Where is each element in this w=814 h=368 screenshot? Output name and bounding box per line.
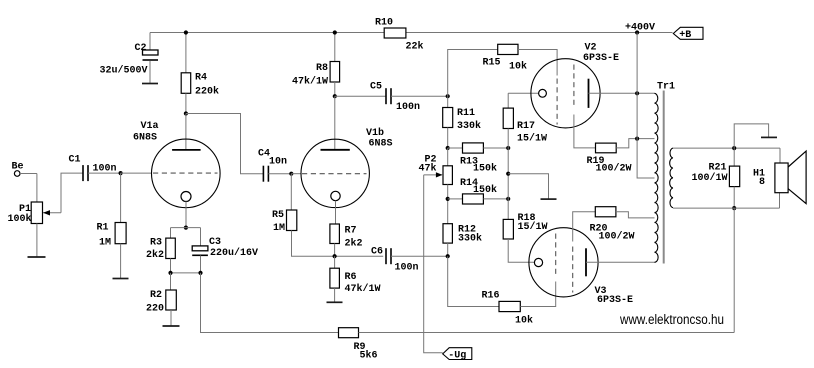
wire R3-C3 bottom rail — [171, 272, 201, 274]
transformer core — [663, 91, 665, 264]
junction R11 / R13 / P2 — [446, 146, 450, 150]
resistor R19 — [596, 143, 617, 153]
wire speaker return to bus — [733, 208, 735, 332]
capacitor C2 — [143, 50, 159, 55]
svg-text:R17: R17 — [517, 121, 535, 132]
wire R18 to V3 cathode — [508, 239, 534, 262]
resistor R7 — [330, 224, 340, 244]
svg-text:R1: R1 — [97, 223, 109, 234]
V1b grid (dashed) — [302, 173, 367, 175]
pentode V2 envelope — [531, 59, 600, 128]
junction cathode / R3 C3 rail — [184, 226, 188, 230]
capacitor C1 — [83, 165, 88, 181]
svg-text:R4: R4 — [195, 73, 207, 84]
svg-text:15/1W: 15/1W — [518, 221, 548, 233]
capacitor C3 (polarized) — [192, 246, 208, 251]
P2 wiper arrow — [424, 174, 442, 176]
ground secondary — [761, 136, 777, 138]
wire C4 to V1b grid node — [268, 173, 291, 175]
ground below R6 — [327, 301, 343, 303]
resistor R21 — [729, 166, 739, 187]
power flag +B — [673, 27, 703, 39]
svg-text:C2: C2 — [135, 43, 147, 54]
svg-text:6N8S: 6N8S — [369, 139, 393, 150]
wire P2 wiper to -Ug flag — [424, 175, 443, 353]
V1a cathode circle — [181, 192, 191, 202]
svg-text:Tr1: Tr1 — [657, 82, 675, 93]
svg-text:C6: C6 — [371, 247, 383, 258]
wire bottom bus R9 to speaker return — [359, 332, 735, 334]
junction anode line / +400V line — [635, 91, 639, 95]
svg-text:2k2: 2k2 — [146, 249, 164, 261]
ground mid (output stage) — [541, 198, 557, 200]
wire secondary top rail — [673, 147, 780, 149]
wire +400V to primary center tap — [637, 33, 654, 179]
svg-text:2k2: 2k2 — [345, 238, 363, 250]
wire V3 anode to primary bottom — [586, 261, 655, 263]
resistor R12 — [443, 224, 452, 243]
svg-text:8: 8 — [759, 177, 765, 188]
junction V1a anode node — [184, 111, 188, 115]
wire down to P1 — [36, 174, 38, 203]
wire to R13 — [448, 147, 463, 149]
svg-text:1M: 1M — [99, 238, 111, 249]
svg-text:R11: R11 — [457, 108, 475, 119]
wire node to R15 — [448, 50, 498, 97]
wire V1b cathode to R7 — [335, 201, 337, 224]
V1b anode plate — [321, 149, 350, 151]
wire R21 to bottom rail — [733, 187, 735, 209]
wire to R6 — [334, 256, 336, 268]
svg-text:R16: R16 — [482, 291, 500, 302]
junction bottom rail / feedback — [198, 271, 202, 275]
V3 control grid g1 (dashed) — [555, 234, 557, 278]
junction P2 line / R14 — [446, 197, 450, 201]
svg-text:R5: R5 — [272, 210, 284, 221]
svg-text:6N8S: 6N8S — [133, 133, 157, 144]
wire grid node to V1a grid — [121, 172, 152, 174]
capacitor C5 — [386, 88, 391, 104]
resistor R1 — [115, 223, 126, 244]
junction top rail / +400V drop — [635, 30, 639, 34]
resistor R10 — [384, 28, 406, 38]
input terminal Be — [14, 171, 20, 177]
svg-text:6P3S-E: 6P3S-E — [597, 295, 633, 306]
svg-text:+400V: +400V — [625, 23, 655, 34]
resistor R16 — [499, 301, 520, 311]
svg-text:+B: +B — [679, 30, 691, 41]
triode V1b envelope — [301, 139, 369, 207]
svg-text:V2: V2 — [585, 43, 597, 54]
wire V2 g2 to R19 — [574, 115, 596, 148]
resistor R13 — [463, 143, 484, 153]
ground below R1 — [113, 278, 129, 280]
svg-text:22k: 22k — [406, 41, 424, 53]
svg-text:-Ug: -Ug — [448, 351, 466, 362]
wire to H1 top — [779, 148, 781, 163]
svg-text:47k/1W: 47k/1W — [345, 283, 381, 295]
svg-text:C5: C5 — [370, 82, 382, 93]
speaker H1 driver box — [775, 163, 788, 193]
resistor R6 — [330, 268, 340, 288]
wire to V2 cathode — [508, 92, 538, 94]
svg-text:100k: 100k — [8, 213, 32, 225]
wire V1b anode lead — [334, 96, 336, 150]
resistor R3 — [166, 238, 176, 258]
wire C2 to ground — [149, 61, 151, 84]
capacitor C4 — [263, 166, 268, 182]
svg-text:10k: 10k — [515, 315, 533, 327]
wire R3 to bottom rail — [170, 259, 172, 273]
svg-text:330k: 330k — [457, 120, 481, 132]
wire C2 stub from top rail — [149, 33, 151, 51]
junction R13 / R17 line — [506, 146, 510, 150]
wire to ground symbol — [508, 174, 548, 199]
svg-text:R6: R6 — [345, 272, 357, 283]
wire C6 to R12 node — [391, 255, 448, 257]
transformer Tr1 secondary winding — [670, 148, 673, 208]
wire C3 to bottom rail — [200, 256, 202, 273]
junction secondary bottom / R21 / return — [732, 206, 736, 210]
wire secondary bottom rail — [673, 207, 780, 209]
wire feedback to R9 — [201, 273, 339, 333]
resistor R15 — [498, 44, 518, 54]
junction secondary top / R21 / ground hat — [732, 146, 736, 150]
svg-text:150k: 150k — [473, 163, 497, 175]
svg-text:R15: R15 — [483, 58, 501, 69]
svg-text:V1a: V1a — [141, 121, 159, 132]
junction R14 / R18 line — [506, 197, 510, 201]
wire node to P2 — [447, 148, 449, 166]
wire R8 to anode node — [334, 82, 336, 96]
wire R19 to primary UL tap — [616, 139, 654, 148]
svg-text:100/2W: 100/2W — [599, 231, 635, 243]
junction top rail / R4 — [184, 30, 188, 34]
wire to R11 — [447, 96, 449, 107]
wire to C5 — [335, 95, 386, 97]
transformer Tr1 primary winding — [655, 93, 659, 262]
wire secondary to chassis ground — [734, 124, 768, 148]
wire R20 to primary UL tap — [616, 212, 655, 218]
resistor R20 — [595, 207, 616, 217]
wire R17 to R18 — [507, 129, 509, 220]
capacitor C6 — [386, 248, 391, 264]
wire R15 to V2 grid pin — [518, 50, 557, 76]
junction C4 / R5 / V1b grid — [289, 172, 293, 176]
wire to R3 — [170, 228, 172, 239]
junction V1b anode / C5 — [333, 94, 337, 98]
resistor R8 — [330, 62, 340, 83]
wire R1 to ground — [120, 244, 122, 279]
wire R4 to anode node — [185, 93, 187, 113]
junction C1 / R1 / V1a grid — [119, 171, 123, 175]
wire R6 to ground — [334, 288, 336, 302]
junction bottom rail / R2 — [168, 271, 172, 275]
svg-text:R21: R21 — [709, 163, 727, 174]
svg-text:150k: 150k — [473, 184, 497, 196]
wire to R14 — [448, 198, 463, 200]
wire grid node to R5 — [290, 174, 292, 210]
wire grid node to R1 — [120, 173, 122, 222]
svg-text:V1b: V1b — [366, 127, 384, 139]
resistor R2 — [166, 290, 177, 310]
wire Be to P1 top — [20, 173, 37, 175]
wire P1 wiper to C1 — [61, 173, 83, 213]
svg-text:6P3S-E: 6P3S-E — [583, 53, 619, 64]
junction C6 / R12 / V3 grid path — [446, 254, 450, 258]
wire top rail to R8 — [334, 33, 336, 62]
wire R5 to C6 rail — [292, 231, 384, 257]
wire R13 to cathode line — [483, 147, 508, 149]
svg-text:R7: R7 — [345, 226, 357, 237]
V3 anode plate bar — [585, 248, 587, 276]
svg-text:47k: 47k — [419, 163, 437, 175]
pentode V3 envelope — [529, 228, 598, 297]
svg-text:32u/500V: 32u/500V — [100, 65, 148, 77]
ground below C2 — [142, 83, 158, 85]
wire +400V top rail — [150, 32, 673, 34]
svg-text:100n: 100n — [395, 263, 419, 274]
potentiometer P1 body — [31, 202, 42, 224]
svg-text:R2: R2 — [150, 290, 162, 301]
svg-text:R10: R10 — [375, 18, 393, 29]
V3 screen grid g2 (dashed) — [572, 247, 574, 293]
resistor R4 — [181, 73, 191, 94]
wire H1 bottom — [779, 193, 781, 208]
svg-text:100/1W: 100/1W — [692, 172, 728, 184]
svg-text:5k6: 5k6 — [360, 350, 378, 362]
wire V2 anode to primary top — [589, 92, 655, 94]
triode V1a envelope — [152, 139, 221, 208]
svg-text:10k: 10k — [509, 61, 527, 73]
wire V2 cathode to R17 — [507, 93, 509, 108]
wire to V1b grid — [291, 173, 301, 175]
svg-text:100n: 100n — [396, 102, 420, 113]
resistor R9 — [339, 328, 359, 338]
wire anode node to C4 — [186, 114, 264, 174]
V2 anode plate bar — [588, 79, 590, 108]
wire to R2 — [170, 273, 172, 290]
wire P1 to ground — [36, 224, 38, 258]
wire R12 to C6 node — [447, 243, 449, 256]
V1a anode plate — [172, 149, 201, 151]
svg-text:100/2W: 100/2W — [596, 163, 632, 175]
V2 cathode circle — [539, 89, 547, 97]
wire to R21 — [733, 148, 735, 166]
svg-text:330k: 330k — [458, 233, 482, 245]
svg-text:220u/16V: 220u/16V — [210, 247, 258, 259]
wire R2 to ground — [170, 310, 172, 326]
svg-text:10n: 10n — [269, 157, 287, 168]
V2 screen grid g2 (dashed) — [573, 65, 575, 109]
svg-text:R8: R8 — [316, 63, 328, 74]
svg-text:R3: R3 — [150, 238, 162, 249]
wire R11 to R13 node — [447, 128, 449, 149]
wire V1a anode lead — [185, 114, 187, 150]
wire C1 to grid node — [88, 172, 121, 174]
svg-text:C3: C3 — [209, 237, 221, 248]
resistor R5 — [287, 210, 297, 231]
junction top rail / R8 — [333, 30, 337, 34]
resistor R14 — [463, 194, 484, 204]
junction cathode line / ground stub — [506, 172, 510, 176]
wire C5 to R11 node — [391, 95, 448, 97]
ground below P1 — [28, 256, 46, 258]
junction R19 tap / +400V line — [635, 137, 639, 141]
wire R16 to V3 grid pin — [520, 282, 555, 307]
V1a grid (dashed) — [153, 172, 218, 174]
ground below R2 — [163, 325, 180, 327]
wire R14 to cathode line — [483, 198, 508, 200]
wire top rail to R4 — [185, 33, 187, 73]
svg-text:220k: 220k — [195, 86, 219, 98]
P1 wiper arrow — [43, 212, 61, 214]
V3 cathode circle — [534, 258, 542, 266]
resistor R17 — [503, 108, 513, 128]
junction R7 / R6 / C6 — [333, 254, 337, 258]
wire node to R16 — [448, 256, 499, 306]
wire V1a cathode to R3/C3 — [185, 202, 187, 228]
wire R3-C3 top rail — [171, 227, 201, 229]
wire R7 to C6 rail — [334, 244, 336, 257]
potentiometer P2 body — [443, 166, 452, 185]
resistor R18 — [503, 219, 513, 239]
svg-text:15/1W: 15/1W — [517, 133, 547, 145]
junction C5 / R11 / R15 — [446, 94, 450, 98]
svg-text:www.elektroncso.hu: www.elektroncso.hu — [619, 312, 724, 327]
V1b cathode circle — [331, 191, 340, 200]
power flag -Ug — [443, 348, 472, 360]
wire V3 g2 to R20 — [573, 212, 596, 242]
svg-text:47k/1W: 47k/1W — [292, 76, 328, 88]
wire P2 to R12 — [447, 185, 449, 224]
svg-text:C1: C1 — [69, 155, 81, 166]
svg-text:220: 220 — [146, 304, 164, 315]
resistor R11 — [443, 108, 453, 128]
svg-text:1M: 1M — [273, 223, 285, 234]
V2 control grid g1 (dashed) — [556, 79, 558, 125]
wire to C3 — [200, 228, 202, 246]
